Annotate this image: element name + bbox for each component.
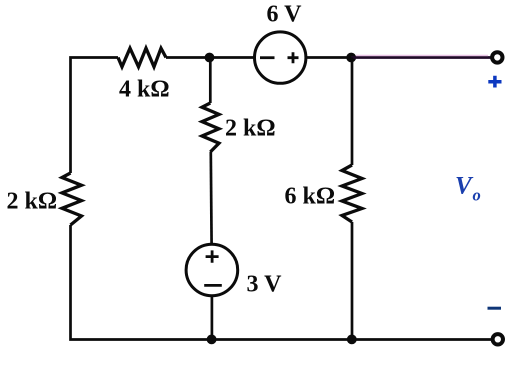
svg-text:2 kΩ: 2 kΩ (225, 116, 276, 142)
plus sign inside 3V source (206, 250, 219, 262)
terminal - (open circle, bottom right) (493, 334, 503, 344)
resistor 2 kOhm left (vertical) (62, 173, 82, 225)
wire: left vertical upper segment with top-left corner (71, 58, 119, 174)
wire: from 4 kOhm to 6V source (166, 56, 255, 59)
svg-text:6 kΩ: 6 kΩ (285, 184, 336, 210)
resistor 6 kOhm (vertical) (342, 165, 362, 222)
node A junction dot (top of middle branch) (205, 53, 215, 63)
resistor 2 kOhm middle (vertical) (202, 103, 219, 152)
plus sign inside 6V source (288, 52, 299, 63)
polarity + mark (blue, below top terminal) (488, 76, 501, 88)
wire: right branch from node B down to 6 kOhm (351, 58, 354, 166)
node C junction dot (bottom of middle branch) (207, 335, 217, 345)
wire: left vertical lower segment with bottom-left corner (71, 225, 212, 340)
wire: right branch from 6 kOhm to bottom wire (351, 222, 354, 340)
svg-text:o: o (473, 186, 481, 205)
wire: purple fringe above output wire (356, 54, 488, 56)
node B junction dot (top of right branch) (346, 53, 356, 63)
voltage source U2 3V (circle) (186, 244, 238, 296)
terminal + (open circle, top right) (492, 52, 502, 62)
minus sign inside 3V source (204, 284, 222, 287)
resistor 4 kOhm (horizontal, top wire) (118, 48, 166, 67)
wire: middle branch from node A down to 2 kOhm (209, 58, 212, 104)
wire: middle branch from 2 kOhm down to 3V source (209, 152, 213, 245)
wire: from 6V source to node A (306, 56, 351, 59)
wire: bottom wire from node C to bottom-right terminal (211, 338, 491, 341)
svg-text:3 V: 3 V (247, 272, 283, 298)
svg-text:2 kΩ: 2 kΩ (7, 189, 58, 215)
polarity - mark (blue, above bottom terminal) (488, 307, 502, 310)
node D junction dot (bottom of right branch) (347, 335, 357, 345)
svg-text:4 kΩ: 4 kΩ (119, 77, 170, 103)
wire: middle branch from 3V source to bottom wire (211, 296, 214, 340)
wire: node B to output terminal + (purple tinted) (351, 56, 490, 59)
voltage source U1 6V (circle) (255, 32, 306, 83)
svg-text:V: V (455, 173, 474, 200)
svg-text:6 V: 6 V (267, 2, 303, 28)
minus sign inside 6V source (260, 56, 275, 59)
